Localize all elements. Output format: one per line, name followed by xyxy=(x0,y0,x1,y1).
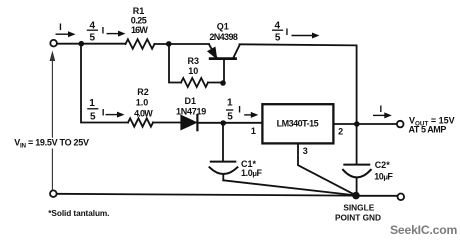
wire regulator pin 2 to output node xyxy=(334,123,357,125)
terminal VOUT- xyxy=(398,194,405,201)
junction node Q1 base / R3 xyxy=(220,80,226,86)
arrow 1/5 I right xyxy=(244,112,258,118)
wire top rail left xyxy=(57,43,126,45)
label VOUT = 15V AT 5 AMP xyxy=(409,116,455,135)
label C2 value xyxy=(374,160,393,182)
wire R3 to base node xyxy=(208,82,223,84)
diode D1 xyxy=(181,115,197,130)
wire output node down to C2 xyxy=(356,124,358,164)
svg-text:0.25: 0.25 xyxy=(131,16,147,26)
resistor R1 xyxy=(126,39,155,49)
svg-text:5: 5 xyxy=(275,32,281,43)
wire R3 branch from top rail xyxy=(169,44,181,83)
terminal VIN- xyxy=(50,190,57,197)
wire bottom rail from VIN- terminal to ground node xyxy=(57,194,353,196)
terminal VIN+ xyxy=(50,40,57,47)
svg-text:1.0μF: 1.0μF xyxy=(241,168,263,178)
svg-text:1: 1 xyxy=(89,98,95,109)
svg-text:2N4398: 2N4398 xyxy=(209,32,238,42)
svg-text:SeekIC.com: SeekIC.com xyxy=(390,223,457,237)
svg-text:5: 5 xyxy=(90,32,96,43)
svg-text:R3: R3 xyxy=(188,56,200,66)
label 1/5 I right xyxy=(226,98,241,123)
wire base node down to C1 xyxy=(222,123,224,161)
wire output node to VOUT terminal xyxy=(357,123,397,125)
wire ground node to VOUT- terminal xyxy=(356,195,397,197)
svg-text:I: I xyxy=(102,107,105,118)
single point ground node xyxy=(352,192,360,200)
regulator U1 LM340T-15 box xyxy=(262,104,333,143)
junction node pin1 / C1 xyxy=(220,120,226,126)
svg-text:Q1: Q1 xyxy=(217,22,229,32)
capacitor C1 xyxy=(210,162,238,181)
wire R1 to Q1 emitter xyxy=(155,43,210,45)
svg-text:2: 2 xyxy=(338,127,343,137)
label 1/5 I left xyxy=(87,98,104,123)
capacitor C2 xyxy=(343,165,371,193)
svg-text:I: I xyxy=(238,104,241,115)
svg-text:16W: 16W xyxy=(131,25,148,35)
label 4/5 I left xyxy=(87,21,105,44)
wire C1 to single point ground xyxy=(223,180,356,195)
svg-text:4.0W: 4.0W xyxy=(134,109,153,119)
arrow 4/5 I right xyxy=(292,33,320,39)
label C1 value xyxy=(241,159,263,178)
svg-text:I: I xyxy=(286,27,289,38)
svg-text:1: 1 xyxy=(251,126,256,136)
svg-text:5: 5 xyxy=(227,111,233,122)
label R2 value xyxy=(134,87,153,119)
wire pin 3 to single point ground xyxy=(298,144,356,196)
label R1 value xyxy=(131,6,149,35)
terminal VOUT+ xyxy=(397,121,404,128)
arrow output current xyxy=(373,112,392,118)
svg-text:R2: R2 xyxy=(137,87,149,97)
label R3 value xyxy=(188,56,200,76)
arrow input current xyxy=(56,31,76,37)
resistor R3 xyxy=(181,78,208,87)
svg-text:1N4719: 1N4719 xyxy=(176,106,206,116)
wire D1 to regulator pin 1 xyxy=(197,122,262,124)
svg-text:C2*: C2* xyxy=(375,160,391,170)
svg-text:POINT GND: POINT GND xyxy=(335,212,381,222)
svg-text:3: 3 xyxy=(303,146,308,156)
VIN measurement arrow xyxy=(50,51,56,191)
arrow 1/5 I left xyxy=(106,112,125,118)
junction node output / C2 xyxy=(354,121,360,127)
arrow 4/5 I left xyxy=(107,31,126,37)
label 4/5 I right xyxy=(272,21,288,44)
resistor R2 xyxy=(128,118,153,126)
svg-text:LM340T-15: LM340T-15 xyxy=(277,119,319,129)
svg-text:D1: D1 xyxy=(185,96,197,106)
wire R2 to D1 xyxy=(153,122,181,124)
label Q1 2N4398 xyxy=(209,22,238,43)
label D1 1N4719 xyxy=(176,96,206,116)
svg-text:10μF: 10μF xyxy=(374,171,393,181)
svg-text:I: I xyxy=(102,25,105,36)
svg-text:10: 10 xyxy=(188,66,198,76)
svg-text:SINGLE: SINGLE xyxy=(343,203,374,213)
svg-text:1: 1 xyxy=(227,98,233,109)
wire input branch down from top rail to R2 row xyxy=(81,44,128,123)
junction node at input branch xyxy=(79,41,85,47)
transistor Q1 xyxy=(208,44,239,82)
svg-text:*Solid tantalum.: *Solid tantalum. xyxy=(48,208,109,218)
svg-text:I: I xyxy=(379,104,382,115)
svg-text:AT 5 AMP: AT 5 AMP xyxy=(409,125,447,135)
svg-text:R1: R1 xyxy=(133,6,145,16)
label SINGLE POINT GND xyxy=(335,203,381,223)
svg-text:I: I xyxy=(59,22,62,33)
svg-text:5: 5 xyxy=(90,112,96,123)
junction node at R3 branch xyxy=(166,41,172,47)
wire Q1 collector to corner and down to output node xyxy=(240,44,357,124)
svg-text:1.0: 1.0 xyxy=(136,98,149,108)
